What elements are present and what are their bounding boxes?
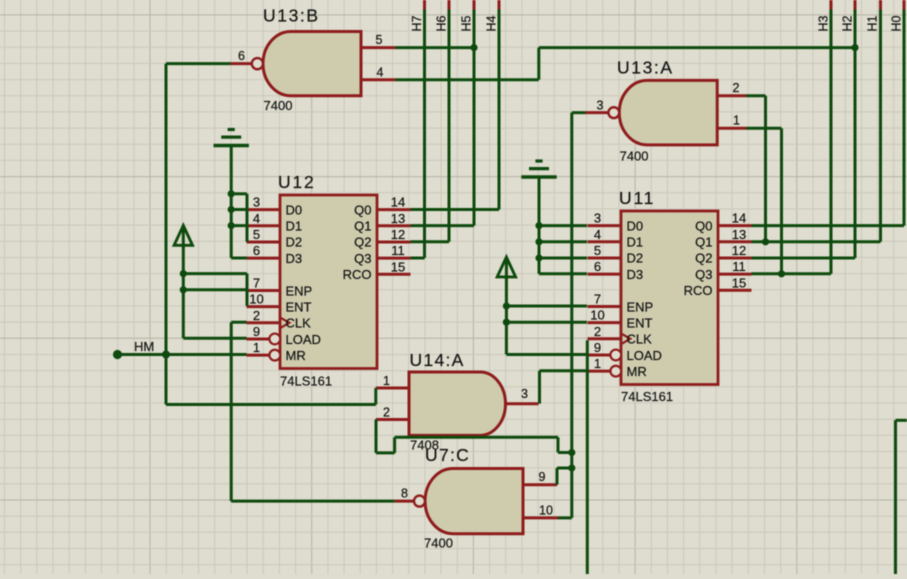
U7:C pin 8 stub [395,487,414,502]
pin stub H7 top [423,0,426,10]
svg-text:Q2: Q2 [354,235,371,250]
svg-text:4: 4 [253,211,260,226]
svg-text:U13:A: U13:A [617,58,674,78]
wire Q3(U12) to H7 [411,10,425,259]
svg-text:HM: HM [134,339,154,354]
U13:B pin 4 stub [361,65,396,79]
junction U12-ENT [180,286,187,293]
wire U14:A.2 to U13:A.3 net [376,420,572,453]
svg-text:9: 9 [253,324,260,339]
wire U11 enable stem [506,277,587,355]
svg-text:1: 1 [733,114,740,128]
node H2 label [841,15,855,31]
svg-text:ENP: ENP [627,299,654,314]
svg-text:9: 9 [594,340,601,355]
ground symbol (U11 D inputs) [521,161,556,177]
node H7 label [410,15,424,31]
pin stub H4 top [498,0,501,10]
wire U7:C.9 tap [557,468,572,485]
svg-text:2: 2 [253,308,260,323]
svg-text:13: 13 [391,211,405,226]
svg-text:5: 5 [376,33,383,47]
wire U13:A.2 to Q1(U11) [746,96,766,242]
svg-text:U14:A: U14:A [410,350,465,370]
svg-text:MR: MR [627,364,647,379]
svg-text:LOAD: LOAD [627,348,662,363]
U7:C value 7400 [424,536,453,551]
ground symbol (U12 D inputs) [214,130,249,146]
junction U12-ENP [180,270,187,277]
svg-text:9: 9 [539,470,546,484]
junction U12-D0 [228,190,235,197]
svg-text:RCO: RCO [684,283,713,298]
junction H5 [470,44,477,51]
svg-text:5: 5 [594,243,601,258]
svg-text:7400: 7400 [424,536,453,551]
svg-text:7: 7 [253,275,260,290]
svg-text:8: 8 [401,487,408,501]
U13:B output bubble [252,58,263,69]
svg-text:10: 10 [539,504,553,518]
svg-text:LOAD: LOAD [286,332,321,347]
junction U14:A.2 net [568,449,575,456]
pin stub H5 top [473,0,476,10]
wire ladder U12 D0-D2 [231,194,247,242]
svg-text:1: 1 [253,340,260,355]
wire U11 D rungs [539,226,587,258]
svg-text:D3: D3 [627,267,644,282]
pin stub H3 top [830,0,833,10]
U13:A label [617,58,674,78]
pin stub H6 top [448,0,451,10]
wire U13:B.4 to H2 [396,48,856,80]
wire Q1(U11) to H1 [752,10,881,242]
wire Q0(U11) to H0 [752,10,905,226]
node H0 label [890,15,904,31]
U14:A label [410,350,465,370]
node H5 label [460,15,474,31]
svg-text:ENT: ENT [286,299,312,314]
svg-text:U13:B: U13:B [263,6,320,26]
junction U11-ENP [503,302,510,309]
svg-text:Q1: Q1 [695,235,712,250]
wire U11.CLK down [586,340,589,574]
counter U12 (74LS161) [247,172,411,389]
svg-text:2: 2 [383,405,390,419]
arrow symbol (U12 enable net) [174,226,192,248]
svg-text:13: 13 [732,227,746,242]
svg-text:74LS161: 74LS161 [621,389,673,404]
junction U11-ENT [503,319,510,326]
U7:C label [425,445,470,465]
U14:A value 7408 [410,438,439,453]
svg-text:Q0: Q0 [695,218,712,233]
wire Q2(U11) to H2 [752,48,856,258]
U14:A pin 3 stub [506,387,539,404]
svg-text:3: 3 [521,387,528,401]
svg-text:D0: D0 [286,202,303,217]
svg-text:D1: D1 [627,235,644,250]
wire U12 enable stem [183,245,247,338]
wire ground stem U11 [539,177,587,274]
svg-text:Q1: Q1 [354,219,371,234]
U13:B label [263,6,320,26]
svg-text:Q3: Q3 [695,267,712,282]
junction U11-D1 [535,238,542,245]
U13:A pin 1 stub [717,114,746,129]
svg-text:Q2: Q2 [695,251,712,266]
svg-text:14: 14 [391,195,405,210]
U13:A output bubble [608,107,619,118]
svg-text:H6: H6 [435,15,449,31]
U13:B pin 5 stub [361,33,396,47]
U7:C output bubble [414,496,425,507]
junction U11-D0 [535,222,542,229]
wire U13:A.3 down [558,113,586,518]
svg-text:U11: U11 [619,188,655,208]
junction Q3(U11) [778,270,785,277]
svg-text:4: 4 [377,65,384,79]
wire U14:A.3 to U11.MR [540,371,588,404]
junction Q1(U11) [762,238,769,245]
svg-text:10: 10 [249,292,263,307]
svg-text:2: 2 [733,81,740,95]
U14:A pin 1 stub [376,374,409,388]
svg-text:D1: D1 [286,219,303,234]
svg-text:6: 6 [594,259,601,274]
svg-text:ENP: ENP [286,283,313,298]
svg-text:H0: H0 [890,15,904,31]
svg-text:11: 11 [391,243,405,258]
arrow symbol (U11 enable net) [497,257,515,279]
svg-text:Q3: Q3 [354,251,371,266]
svg-text:CLK: CLK [286,316,312,331]
svg-text:U7:C: U7:C [425,445,470,465]
wire HM to U12.MR [118,353,247,356]
U14:A pin 2 stub [376,405,409,419]
U13:A pin 2 stub [717,81,746,96]
wire U13:B.6 to U14:A.1 [166,64,376,405]
svg-text:Q0: Q0 [354,202,371,217]
wire U13:B.5 to H5 [396,46,475,49]
svg-text:3: 3 [597,99,604,113]
svg-text:CLK: CLK [627,332,653,347]
wire bottom-right [896,420,907,574]
pin stub H1 top [879,0,882,10]
svg-text:12: 12 [391,227,405,242]
svg-text:MR: MR [286,348,306,363]
wire Q3(U11) to H3 [752,10,832,274]
svg-text:U12: U12 [278,172,316,192]
svg-text:1: 1 [383,374,390,388]
node HM terminal [113,339,154,359]
wire H2 column upper [854,10,857,48]
svg-text:7: 7 [594,291,601,306]
svg-text:ENT: ENT [627,315,653,330]
svg-text:D3: D3 [286,251,303,266]
svg-text:3: 3 [253,195,260,210]
svg-text:H3: H3 [817,15,831,31]
wire Q2(U12) to H6 [411,10,450,242]
svg-text:RCO: RCO [343,267,372,282]
svg-text:D2: D2 [286,235,303,250]
pin stub H0 top [903,0,906,10]
wire ground stem U12 [231,146,247,259]
svg-text:74LS161: 74LS161 [280,374,332,389]
svg-text:H5: H5 [460,15,474,31]
junction U12-D1 [228,206,235,213]
svg-text:14: 14 [732,211,746,226]
svg-text:3: 3 [594,211,601,226]
svg-text:11: 11 [732,259,746,274]
node H4 label [485,15,499,31]
junction U11-D2 [535,254,542,261]
logic gate U13:A (7400 NAND, mirrored) [619,80,717,144]
svg-text:5: 5 [253,227,260,242]
junction U12-D2 [228,222,235,229]
junction HM [162,351,170,359]
junction H2 [851,44,858,51]
pin stub H2 top [854,0,857,10]
node H6 label [435,15,449,31]
svg-text:D0: D0 [627,218,644,233]
U13:B pin 6 stub [231,49,252,64]
U7:C pin 9 stub [523,470,557,485]
svg-text:H1: H1 [866,15,880,31]
counter U11 (74LS161) [588,188,752,404]
svg-text:7400: 7400 [264,98,293,113]
svg-text:12: 12 [732,243,746,258]
logic gate U14:A (7408 AND) [409,372,506,435]
U7:C pin 10 stub [523,504,558,518]
svg-text:H4: H4 [485,15,499,31]
svg-text:4: 4 [594,227,601,242]
U13:B value 7400 [264,98,293,113]
svg-text:1: 1 [594,356,601,371]
svg-text:H7: H7 [410,15,424,31]
svg-text:15: 15 [391,259,405,274]
svg-text:7400: 7400 [620,149,649,164]
junction U7:C.9 [568,464,575,471]
svg-text:2: 2 [594,324,601,339]
svg-text:15: 15 [732,275,746,290]
logic gate U13:B (7400 NAND, mirrored) [263,32,361,96]
logic gate U7:C (7400 NAND, mirrored) [425,469,523,534]
svg-text:6: 6 [253,243,260,258]
node H1 label [866,15,880,31]
node H3 label [817,15,831,31]
svg-text:H2: H2 [841,15,855,31]
svg-text:6: 6 [238,49,245,63]
U13:A value 7400 [620,149,649,164]
wire U7:C.8 to U12.CLK [231,322,394,501]
wire Q1(U12) to H5 [411,10,475,226]
svg-text:10: 10 [590,308,604,323]
wire Q0(U12) to H4 [411,10,500,210]
U13:A pin 3 stub [586,99,609,113]
wire U13:A.1 to Q3(U11) [746,128,782,274]
svg-text:D2: D2 [627,251,644,266]
